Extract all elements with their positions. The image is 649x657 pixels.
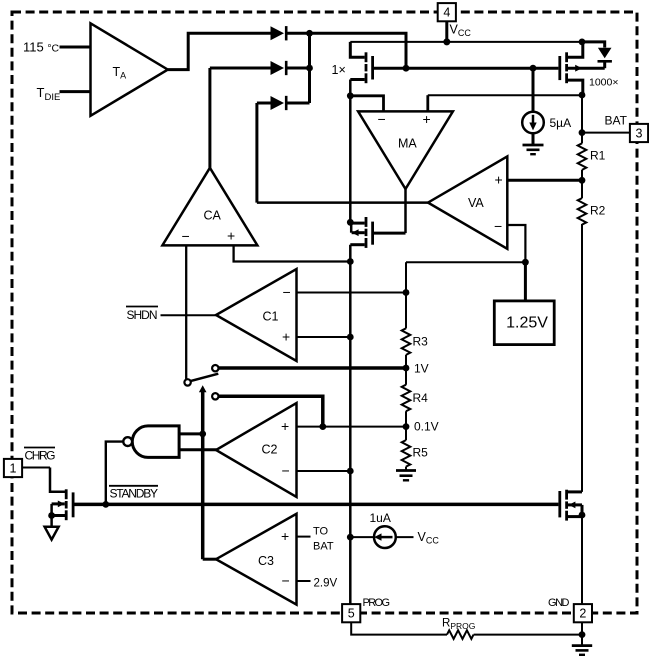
svg-text:5µA: 5µA bbox=[550, 116, 572, 130]
node C2 minus bus junction bbox=[347, 468, 354, 475]
ground 5uA source ground bbox=[523, 145, 544, 154]
node 1000x drain VCC junction bbox=[579, 39, 586, 46]
wire sense bus lower bbox=[349, 245, 352, 604]
node MA minus bus junction bbox=[347, 92, 354, 99]
node 1V tap junction bbox=[403, 365, 410, 372]
svg-text:+: + bbox=[423, 111, 431, 127]
node C1 minus divider junction bbox=[403, 289, 410, 296]
svg-text:1.25V: 1.25V bbox=[506, 315, 548, 332]
wire VA plus input bbox=[507, 179, 582, 182]
node RPROG ground junction bbox=[579, 631, 586, 638]
svg-text:MA: MA bbox=[398, 137, 417, 151]
wire CA output to diode D2 bbox=[210, 68, 271, 168]
wire divider top segment bbox=[405, 262, 407, 328]
wire C3 output vertical bbox=[203, 434, 217, 559]
svg-text:C2: C2 bbox=[262, 443, 278, 457]
node R1 R2 junction bbox=[579, 177, 586, 184]
wire VA minus input bbox=[507, 225, 525, 262]
current source 1uA bbox=[350, 526, 413, 548]
wire RPROG to ground bbox=[474, 634, 582, 636]
node diode rail mid junction bbox=[306, 65, 313, 72]
wire R2 down to Q2 drain bbox=[581, 224, 583, 492]
resistor R4 bbox=[402, 385, 428, 412]
node CA plus bus junction bbox=[347, 258, 354, 265]
wire C2 minus input bbox=[297, 470, 351, 472]
transistor 1x MOSFET bbox=[350, 42, 372, 83]
wire pin4 VCC lead bbox=[445, 21, 448, 42]
ground chip ground bbox=[572, 646, 592, 655]
node M3 drain junction bbox=[347, 219, 354, 226]
switch throw contact 1V bbox=[212, 365, 218, 371]
svg-text:C3: C3 bbox=[258, 554, 274, 568]
wire Q2 source to GND pin bbox=[581, 517, 583, 604]
svg-text:−: − bbox=[283, 284, 291, 300]
op-amp CA bbox=[162, 168, 257, 246]
svg-text:1uA: 1uA bbox=[370, 511, 391, 525]
wire diode summing rail bbox=[308, 33, 311, 103]
comparator C2 bbox=[216, 403, 297, 497]
svg-text:STANDBY: STANDBY bbox=[110, 487, 159, 501]
svg-text:+: + bbox=[495, 172, 503, 188]
wire CA minus input bbox=[185, 245, 187, 379]
svg-text:115 °C: 115 °C bbox=[23, 40, 60, 55]
svg-text:1: 1 bbox=[10, 461, 17, 475]
current source 5uA bbox=[522, 68, 544, 144]
wire TA input TDIE bbox=[60, 90, 91, 93]
wire MA output bbox=[404, 189, 407, 233]
svg-text:0.1V: 0.1V bbox=[414, 420, 439, 434]
wire GND pin to ground bbox=[581, 623, 583, 645]
svg-text:VA: VA bbox=[468, 196, 484, 210]
diode 1000x body diode bbox=[582, 42, 612, 68]
svg-text:R5: R5 bbox=[413, 446, 429, 460]
label SHDN bbox=[126, 307, 158, 323]
svg-text:1×: 1× bbox=[332, 63, 346, 77]
svg-text:+: + bbox=[282, 329, 290, 345]
svg-text:2: 2 bbox=[579, 607, 586, 621]
pin 1 bbox=[4, 459, 22, 477]
wire R3 to R4 bbox=[405, 355, 407, 385]
svg-text:−: − bbox=[494, 218, 502, 234]
node C1 plus bus junction bbox=[347, 334, 354, 341]
svg-text:R1: R1 bbox=[590, 149, 606, 163]
wire R5 to ground bbox=[405, 467, 407, 471]
wire VCC rail bbox=[350, 41, 582, 43]
amplifier TA bbox=[91, 23, 168, 116]
pin 1 CHRG wire bbox=[23, 467, 51, 469]
wire TA output to diode D1 bbox=[168, 33, 271, 69]
label TO BAT bbox=[313, 526, 334, 553]
wire 1V select line bbox=[219, 366, 407, 370]
wire SHDN lead bbox=[161, 314, 217, 316]
node 1.25V reference junction bbox=[522, 259, 529, 266]
svg-text:−: − bbox=[282, 463, 290, 479]
wire CA plus input bbox=[234, 245, 351, 261]
svg-text:CA: CA bbox=[204, 209, 222, 223]
wire R4 to R5 bbox=[405, 411, 407, 440]
wire MA plus input bbox=[428, 95, 582, 111]
wire NAND input from C3 line bbox=[179, 432, 203, 435]
svg-text:+: + bbox=[227, 228, 235, 244]
resistor R1 bbox=[578, 143, 606, 170]
transistor Q2 MOSFET bbox=[560, 490, 582, 521]
wire sense bus upper bbox=[349, 80, 352, 223]
node 0.1V tap junction bbox=[403, 423, 410, 430]
reference box 1.25V bbox=[494, 301, 554, 345]
svg-text:GND: GND bbox=[548, 597, 570, 609]
svg-text:C1: C1 bbox=[263, 310, 279, 324]
op-amp MA bbox=[358, 111, 453, 189]
svg-text:CHRG: CHRG bbox=[25, 449, 56, 463]
node VCC rail junction bbox=[443, 38, 450, 45]
ground divider ground bbox=[396, 471, 416, 481]
wire STANDBY line bbox=[73, 503, 558, 507]
pin 4 bbox=[438, 3, 456, 21]
wire MA output line to diode D3 bbox=[257, 103, 271, 203]
svg-text:BAT: BAT bbox=[605, 114, 628, 128]
node diode rail top junction bbox=[306, 30, 313, 37]
diode D1 bbox=[271, 26, 310, 40]
svg-text:R2: R2 bbox=[590, 204, 606, 218]
svg-text:1V: 1V bbox=[414, 362, 429, 376]
svg-text:BAT: BAT bbox=[313, 541, 334, 553]
comparator C1 bbox=[216, 269, 297, 361]
label CHRG bbox=[24, 448, 56, 463]
pin 5 bbox=[342, 604, 360, 622]
svg-text:PROG: PROG bbox=[363, 597, 391, 609]
wire C2 plus input bbox=[297, 426, 407, 428]
transistor Q1 CHRG MOSFET bbox=[50, 468, 73, 528]
svg-text:1000×: 1000× bbox=[589, 77, 619, 89]
wire MA output horizontal to VA output bbox=[257, 201, 428, 204]
diode D2 bbox=[271, 61, 310, 75]
svg-text:+: + bbox=[281, 418, 289, 434]
switch SPDT blade bbox=[190, 374, 218, 381]
wire 1.25V reference line bbox=[406, 261, 525, 263]
wire BAT pin lead bbox=[582, 132, 630, 134]
svg-text:3: 3 bbox=[636, 126, 643, 140]
arrow switch control from C3 bbox=[199, 385, 207, 434]
svg-text:5: 5 bbox=[348, 607, 355, 621]
node gate line left junction bbox=[403, 65, 410, 72]
wire MA minus input bbox=[350, 96, 383, 112]
transistor M3 MOSFET bbox=[350, 217, 405, 248]
diode D3 bbox=[271, 96, 310, 110]
resistor R3 bbox=[402, 328, 428, 355]
node BAT sense junction bbox=[579, 92, 586, 99]
resistor R2 bbox=[578, 198, 606, 225]
wire common gate line bbox=[374, 67, 558, 70]
svg-text:TO: TO bbox=[313, 526, 329, 538]
comparator C3 bbox=[216, 514, 297, 605]
svg-text:2.9V: 2.9V bbox=[314, 578, 338, 590]
node 1uA bus junction bbox=[347, 534, 354, 541]
op-amp VA bbox=[428, 156, 507, 248]
svg-text:−: − bbox=[282, 573, 290, 589]
svg-text:SHDN: SHDN bbox=[127, 308, 158, 322]
node Q1 source body junction bbox=[48, 512, 55, 519]
resistor R5 bbox=[402, 440, 428, 467]
wire TA input 115C bbox=[60, 46, 91, 49]
svg-text:4: 4 bbox=[443, 6, 450, 20]
wire C2 output to NAND bbox=[179, 448, 216, 451]
wire R1 to R2 bbox=[581, 170, 583, 198]
wire C3 minus input bbox=[297, 580, 311, 582]
wire BAT rail upper bbox=[581, 95, 583, 143]
svg-text:R3: R3 bbox=[413, 335, 429, 349]
svg-text:−: − bbox=[378, 111, 386, 127]
wire diode rail to gate line bbox=[310, 33, 407, 68]
wire 0.1V select line bbox=[219, 396, 323, 426]
wire 1.25V box lead bbox=[524, 262, 527, 301]
svg-text:R4: R4 bbox=[413, 391, 429, 405]
wire NAND output bbox=[106, 442, 124, 505]
pin 2 bbox=[574, 604, 592, 622]
svg-text:+: + bbox=[281, 528, 289, 544]
node 0.1V select junction bbox=[319, 423, 326, 430]
switch pole contact bbox=[184, 379, 190, 385]
resistor RPROG bbox=[442, 618, 475, 639]
node Q2 source body junction bbox=[579, 512, 586, 519]
wire PROG pin lead bbox=[351, 623, 447, 635]
label STANDBY bbox=[109, 486, 158, 501]
gate U1 NAND bbox=[123, 426, 179, 458]
svg-text:−: − bbox=[182, 228, 190, 244]
node STANDBY junction bbox=[102, 501, 109, 508]
node gate line 5uA tap bbox=[530, 65, 537, 72]
node NAND input junction bbox=[199, 431, 206, 438]
switch throw contact 0.1V bbox=[212, 393, 218, 399]
wire C1 minus input bbox=[297, 292, 407, 294]
transistor 1000x MOSFET bbox=[560, 42, 605, 95]
ground Q1 ground arrow bbox=[45, 527, 59, 540]
pin 3 bbox=[630, 124, 648, 142]
wire C1 plus input bbox=[297, 336, 351, 338]
wire C3 plus input bbox=[297, 536, 311, 538]
node BAT pin junction bbox=[579, 129, 586, 136]
